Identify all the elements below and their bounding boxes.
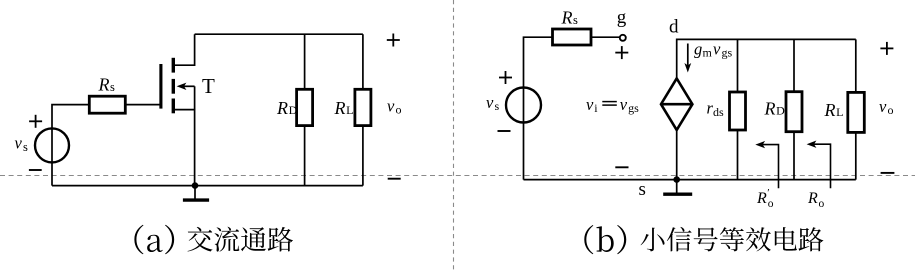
svg-text:R: R [756,190,767,207]
svg-text:s: s [23,140,28,154]
svg-text:R: R [824,100,836,120]
resistor Rs (a) [89,96,125,113]
minus vo (b) [881,172,895,174]
svg-text:R: R [98,74,110,94]
svg-text:g: g [617,7,627,28]
boundary dashed vertical line [453,0,455,270]
svg-text:D: D [776,104,785,118]
svg-text:v: v [15,134,23,153]
resistor RD (a) [297,89,313,125]
wire: (a) left column from vs source up to Rs level [52,105,89,186]
Ro measuring arrow [807,141,831,189]
svg-text:o: o [819,198,825,210]
resistor Rs (b) [553,29,592,45]
minus vo (a) [388,178,401,180]
transistor T gate bar [159,64,162,109]
voltage source vs (a) [35,128,69,162]
plus g (b) [615,52,628,54]
wire: (b) Rs to g terminal [591,36,619,38]
plus vs (b) [499,77,512,79]
wire: (a) drain to top rail [175,34,195,65]
svg-text:gs: gs [628,101,639,115]
wire: (a) body to source junction [194,86,196,109]
transistor T body arrow [177,83,195,90]
svg-text:d: d [669,17,679,38]
ground (a) [183,198,209,201]
svg-text:o: o [768,198,774,210]
resistor RL (a) [355,89,371,125]
svg-text:R: R [334,98,346,118]
boundary dashed horizontal line [0,175,915,177]
node g open terminal [620,35,626,41]
svg-text:gs: gs [722,46,733,60]
resistor rds [730,92,746,130]
wire: (a) top rail [195,33,363,35]
wire: (a) source down to ground rail [175,110,195,186]
Ro' measuring arrow [755,141,778,188]
svg-text:v: v [586,95,594,114]
wire: (b) ground stub [676,180,678,193]
transistor T channel bars [172,58,175,114]
caption (a) 交流通路 [188,227,294,252]
svg-text:s: s [110,80,115,94]
svg-text:ds: ds [713,105,724,119]
svg-text:R: R [561,8,573,28]
wire: (b) RD column [793,39,795,179]
minus vs (b) [498,130,511,132]
svg-text:v: v [879,97,887,116]
caption (b) label [584,225,626,254]
wire: (a) RL column [362,34,364,185]
svg-text:L: L [836,105,843,119]
wire: (a) ground stub [194,186,196,199]
svg-text:s: s [495,99,500,113]
svg-text:R: R [276,98,288,118]
svg-text:s: s [573,13,578,27]
wire: (b) bottom rail [524,179,856,181]
wire: (a) Rs to gate [125,104,160,106]
svg-text:m: m [703,46,713,60]
voltage source vs (b) [506,88,541,123]
wire: (b) d column down to diamond [677,39,856,78]
svg-text:v: v [620,95,628,114]
wire: (b) diamond to bottom rail [676,130,678,180]
svg-text:R: R [764,99,776,119]
wire: (b) left column [524,37,553,179]
svg-text:v: v [486,93,494,112]
resistor RL (b) [848,92,865,132]
caption (b) 小信号等效电路 [641,227,824,252]
plus vo (b) [880,47,893,49]
wire: (a) bottom rail [52,185,363,187]
svg-text:v: v [387,97,395,116]
resistor RD (b) [786,92,802,132]
minus vs (a) [29,169,42,171]
svg-text:o: o [888,103,894,117]
minus vi (b) [615,166,628,168]
junction dot (b) [673,176,680,183]
gm*vgs current arrow [684,44,691,73]
plus vs (a) [29,120,42,122]
svg-text:o: o [396,103,402,117]
ground (b) [663,192,692,195]
caption (a) label [134,225,174,255]
wire: (b) rds column [737,39,739,179]
wire: (a) RD column [304,34,306,185]
svg-text:g: g [694,40,702,59]
svg-text:T: T [202,74,215,98]
svg-text:s: s [639,179,646,200]
svg-text:v: v [713,40,721,59]
svg-text:L: L [346,103,353,117]
plus vo (a) [387,39,400,41]
junction dot (a) [192,182,199,189]
svg-text:D: D [289,103,298,117]
dependent source gm*vgs (diamond) [661,78,692,130]
wire: (b) RL column [855,39,857,179]
svg-text:R: R [807,190,818,207]
